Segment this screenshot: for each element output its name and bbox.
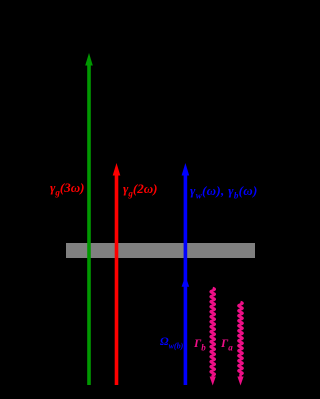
arrow gamma_g(2omega) red [113, 163, 121, 385]
label Gamma_b [194, 336, 206, 352]
label Gamma_a [221, 336, 233, 352]
arrow omega blue (two-headed) [182, 163, 190, 385]
gray slab (band) [66, 243, 255, 258]
label gamma_w(omega), gamma_b(omega) [190, 183, 258, 201]
arrow gamma_g(3omega) green [85, 53, 93, 385]
wavy relaxation arrow Gamma_b magenta [210, 288, 216, 386]
label gamma_g(3omega) [50, 180, 84, 198]
label gamma_g(2omega) [123, 181, 157, 199]
wavy relaxation arrow Gamma_a magenta [237, 302, 243, 386]
label Omega_w(b) [160, 336, 183, 350]
